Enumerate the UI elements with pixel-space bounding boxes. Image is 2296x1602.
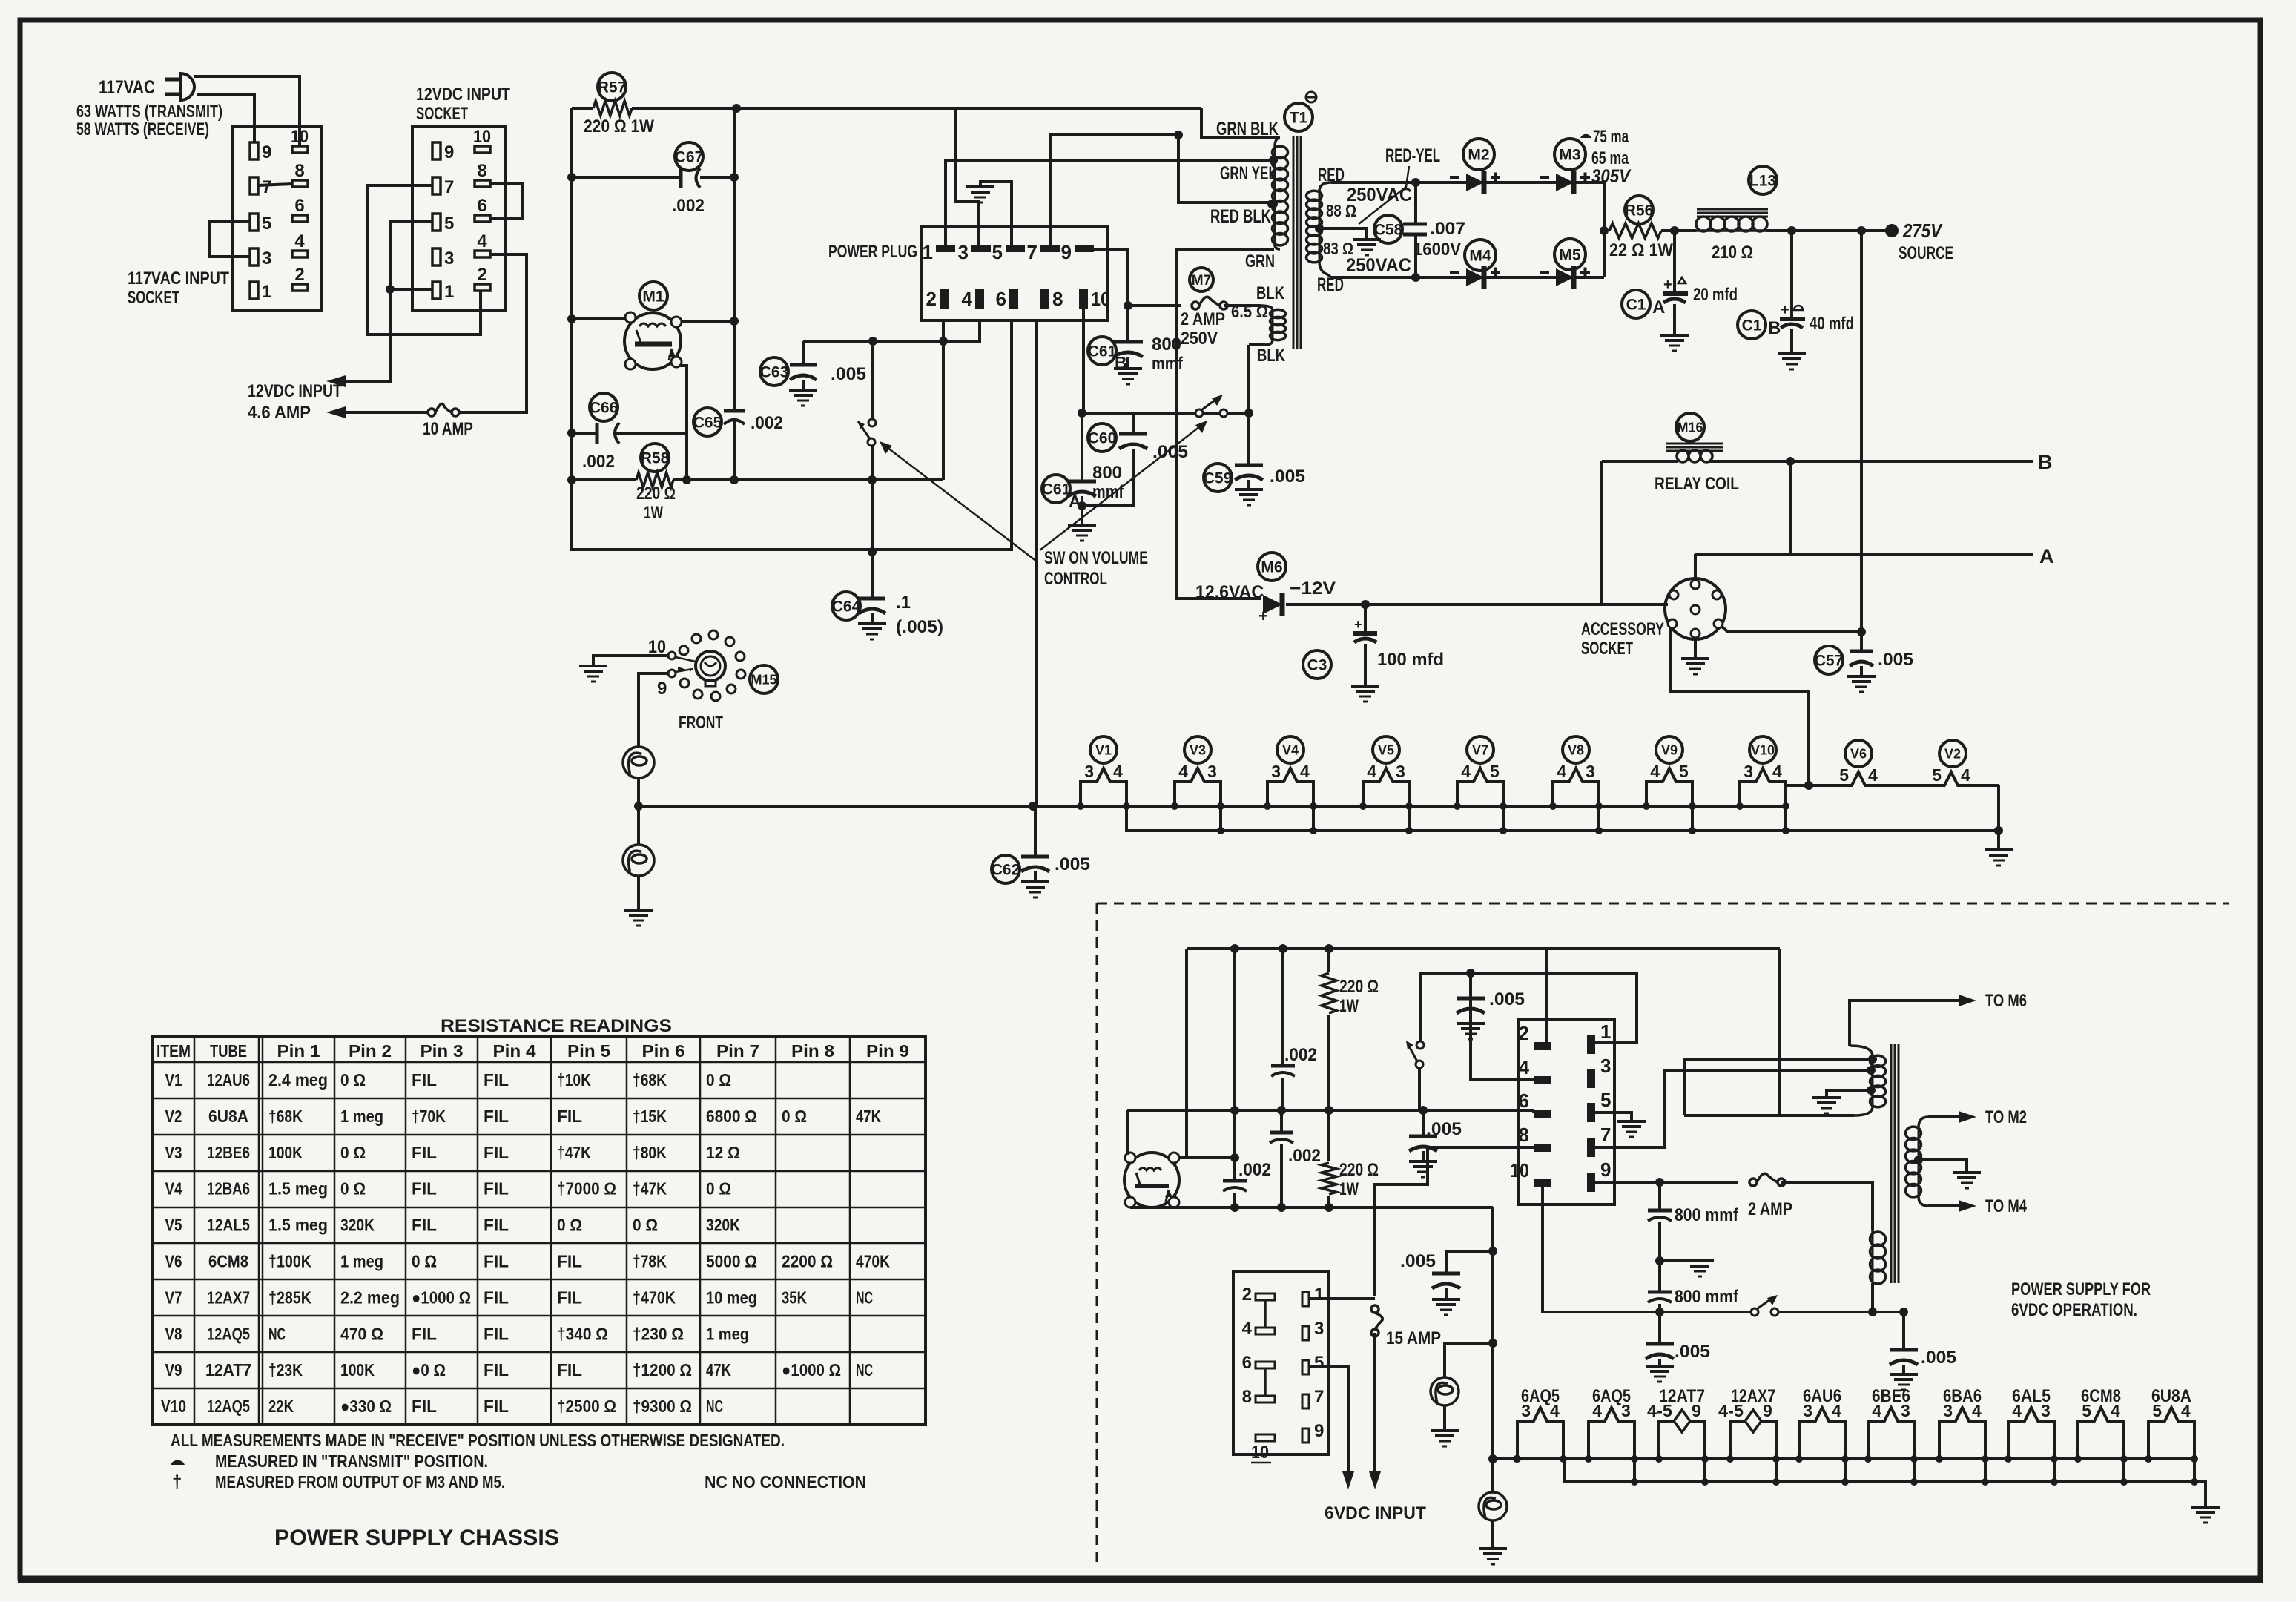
6V jumper 6CM8 (2122, 1459, 2125, 1482)
6VDC socket pin 4 (1256, 1328, 1275, 1334)
diode M3 (1554, 139, 1586, 170)
wire pin5 to ground (1595, 1112, 1632, 1121)
wire GRN tap down (1177, 249, 1274, 599)
svg-text:.002: .002 (672, 196, 705, 216)
svg-text:SOCKET: SOCKET (416, 104, 468, 124)
M15 socket (750, 665, 778, 693)
svg-text:3: 3 (1943, 1401, 1953, 1420)
svg-text:9: 9 (262, 142, 271, 162)
svg-text:RED-YEL: RED-YEL (1385, 145, 1440, 166)
6V pilot lamp 1 (1445, 1343, 1493, 1377)
svg-text:.005: .005 (1400, 1251, 1436, 1271)
6V plug pin 5 (1587, 1103, 1595, 1122)
tube V3 heater (1184, 736, 1211, 763)
svg-text:10: 10 (291, 127, 309, 147)
svg-text:12AT7: 12AT7 (205, 1360, 251, 1379)
svg-text:2 AMP: 2 AMP (1181, 309, 1225, 329)
svg-text:POWER PLUG: POWER PLUG (828, 242, 917, 262)
svg-text:Pin 5: Pin 5 (567, 1041, 610, 1061)
T1 primary winding (1275, 138, 1280, 147)
socket pin 4 (292, 251, 308, 257)
svg-text:GRN BLK: GRN BLK (1216, 119, 1279, 139)
jumper V4 (1312, 806, 1315, 831)
capacitor .002 lower middle (1280, 1110, 1283, 1131)
ground mid 800mmf (1655, 1256, 1664, 1265)
svg-text:FIL: FIL (484, 1252, 509, 1271)
wire V6/V2 heater line (1786, 785, 1837, 806)
svg-text:4: 4 (962, 288, 973, 310)
svg-text:R57: R57 (598, 79, 627, 96)
svg-text:V3: V3 (165, 1143, 182, 1162)
svg-text:3: 3 (1314, 1319, 1324, 1339)
socket pin 3 (250, 248, 258, 266)
svg-text:4: 4 (1178, 762, 1188, 781)
svg-text:3: 3 (1521, 1401, 1531, 1420)
svg-text:●1000 Ω: ●1000 Ω (782, 1360, 841, 1379)
svg-text:8: 8 (1519, 1124, 1529, 1146)
svg-text:3: 3 (1271, 762, 1281, 781)
6V left vertical from top wire to vibrator TR (1185, 949, 1188, 1158)
svg-text:35K: 35K (782, 1288, 807, 1307)
svg-text:FIL: FIL (484, 1324, 509, 1343)
V2 return to ground (1997, 785, 2000, 831)
svg-text:FIL: FIL (484, 1179, 509, 1199)
tube V1 heater (1090, 736, 1117, 763)
svg-text:.005: .005 (831, 364, 866, 384)
svg-text:5: 5 (1932, 765, 1942, 785)
6VDC socket pin2-4 joint (1264, 1300, 1267, 1327)
svg-text:220 Ω: 220 Ω (1339, 977, 1379, 997)
svg-text:C64: C64 (832, 599, 861, 616)
svg-text:ALL MEASUREMENTS MADE IN "RECE: ALL MEASUREMENTS MADE IN "RECEIVE" POSIT… (171, 1431, 785, 1450)
svg-text:4: 4 (2012, 1401, 2022, 1420)
svg-text:FIL: FIL (484, 1216, 509, 1235)
capacitor C66 (590, 393, 618, 421)
svg-text:+: + (1663, 277, 1672, 293)
svg-text:4.6 AMP: 4.6 AMP (248, 403, 311, 423)
svg-text:V4: V4 (1282, 742, 1299, 757)
svg-text:320K: 320K (340, 1216, 375, 1235)
svg-text:100K: 100K (340, 1360, 375, 1379)
6V transformer primary winding (1850, 1046, 1873, 1056)
svg-text:V8: V8 (1568, 742, 1584, 757)
svg-text:Pin 2: Pin 2 (349, 1041, 392, 1061)
6V plug pin 4 (1534, 1076, 1551, 1084)
12V socket pin 3 (432, 248, 441, 266)
svg-text:FIL: FIL (412, 1216, 437, 1235)
capacitor C63 (760, 357, 788, 386)
svg-text:SW ON VOLUME: SW ON VOLUME (1044, 548, 1148, 568)
svg-text:C3: C3 (1307, 657, 1327, 674)
svg-text:.005: .005 (1152, 442, 1188, 462)
svg-text:4: 4 (1113, 762, 1123, 781)
svg-text:1: 1 (923, 241, 933, 263)
wire B to A vertical (1789, 461, 1792, 554)
svg-text:Pin 6: Pin 6 (642, 1041, 685, 1061)
fuse 15 AMP (1371, 1305, 1379, 1313)
svg-text:2200 Ω: 2200 Ω (782, 1252, 833, 1271)
capacitor C1 A (1622, 290, 1650, 318)
6VDC socket pin 8 (1256, 1396, 1275, 1402)
12V socket pin 5 (432, 214, 441, 231)
diode M2 (1463, 139, 1494, 170)
wire top rail corner to GRN BLK (1201, 108, 1280, 138)
capacitor .005 (6V upper) (1466, 969, 1475, 978)
svg-text:250VAC: 250VAC (1347, 185, 1412, 205)
jumper V7 (1502, 806, 1505, 831)
plug pin 10 (1079, 289, 1088, 309)
node 275V SOURCE (1857, 226, 1866, 235)
6VDC socket pin 9 (1302, 1428, 1309, 1443)
svg-text:†9300 Ω: †9300 Ω (633, 1397, 692, 1416)
socket pin 5 (250, 214, 258, 231)
svg-text:5: 5 (2152, 1401, 2162, 1420)
socket right pin wire (1722, 627, 1861, 632)
wire M6 output (1286, 603, 1668, 606)
wire pin2/pin4 (943, 319, 980, 342)
svg-text:V5: V5 (1378, 742, 1394, 757)
6V plug pin 1 (1587, 1035, 1595, 1054)
svg-text:6U8A: 6U8A (208, 1107, 248, 1126)
6V plug pin 10 (1534, 1179, 1551, 1187)
jumper V10 (1784, 806, 1787, 831)
svg-text:V1: V1 (1095, 742, 1112, 757)
svg-text:1W: 1W (644, 503, 663, 523)
svg-text:65 ma: 65 ma (1591, 148, 1629, 168)
svg-text:V8: V8 (165, 1324, 182, 1343)
resistor R58 (641, 444, 669, 472)
plug pin 8 (1040, 289, 1049, 309)
6VDC socket pin 6 (1256, 1362, 1275, 1368)
svg-text:†47K: †47K (557, 1143, 591, 1162)
svg-text:8: 8 (1242, 1387, 1252, 1407)
svg-text:Pin 8: Pin 8 (791, 1041, 834, 1061)
wire pin9 (1094, 250, 1128, 306)
wire y=744 rung (572, 319, 1012, 550)
svg-text:FIL: FIL (412, 1070, 437, 1090)
6V vertical feed (1491, 1207, 1494, 1491)
svg-text:12.6VAC: 12.6VAC (1195, 582, 1264, 602)
svg-text:9: 9 (444, 142, 454, 162)
svg-text:3: 3 (1600, 1055, 1611, 1077)
svg-text:.002: .002 (1238, 1160, 1271, 1180)
svg-text:9: 9 (1600, 1158, 1611, 1181)
svg-text:†23K: †23K (268, 1360, 303, 1379)
tube V4 heater (1277, 736, 1304, 763)
svg-text:250VAC: 250VAC (1346, 255, 1411, 276)
capacitor .005 right (1902, 1312, 1905, 1350)
12V socket pin 8 (475, 180, 490, 187)
wire pin1 to GRN YEL tap (946, 160, 1273, 245)
capacitor C64 (832, 592, 860, 620)
plug pin 6 (1009, 289, 1018, 309)
svg-text:C62: C62 (992, 862, 1020, 879)
svg-text:5: 5 (1314, 1353, 1324, 1373)
TO M6 arrow (1850, 1001, 1962, 1046)
svg-text:FIL: FIL (484, 1397, 509, 1416)
wire pin5 to ground (980, 182, 1012, 245)
svg-text:4: 4 (1868, 765, 1878, 785)
capacitor C61 B (1088, 337, 1116, 365)
6V switch (1418, 1068, 1421, 1110)
svg-text:CONTROL: CONTROL (1044, 569, 1107, 589)
svg-text:†47K: †47K (633, 1179, 667, 1199)
plug pin 1 (936, 245, 955, 252)
117VAC input socket (233, 126, 322, 311)
svg-text:8: 8 (1052, 288, 1063, 310)
M15 pin 9 (668, 670, 676, 677)
pointer arrow to left switch (884, 445, 1037, 561)
capacitor .005 below mid wire (1422, 1110, 1425, 1136)
wire plug to socket pin 10 (194, 76, 300, 146)
svg-text:800 mmf: 800 mmf (1675, 1205, 1739, 1225)
svg-text:4: 4 (1367, 762, 1376, 781)
svg-text:TO M6: TO M6 (1985, 991, 2027, 1011)
12V socket pin 6 (475, 215, 490, 222)
svg-text:RED BLK: RED BLK (1210, 206, 1271, 227)
wire pin7 to transformer pair (1595, 1070, 1873, 1147)
capacitor .005 (6V left) (1446, 1251, 1493, 1273)
svg-text:SOCKET: SOCKET (1581, 639, 1633, 659)
svg-text:22K: 22K (268, 1397, 294, 1416)
svg-text:1 meg: 1 meg (340, 1252, 383, 1271)
6VDC socket pin 7 (1302, 1394, 1309, 1408)
ground above plug (966, 185, 994, 188)
svg-text:3: 3 (444, 248, 454, 268)
wire pin7-pin8 jumper (258, 184, 292, 185)
svg-text:0 Ω: 0 Ω (633, 1216, 658, 1235)
svg-text:†285K: †285K (268, 1288, 311, 1307)
6V transformer heater winding (1871, 1230, 1874, 1233)
label 75ma 65ma 305V (1580, 134, 1591, 138)
svg-text:V1: V1 (165, 1070, 182, 1090)
svg-text:9: 9 (657, 679, 667, 699)
tube V6 heater (1845, 740, 1872, 767)
tube V5 heater (1373, 736, 1399, 763)
svg-text:mmf: mmf (1092, 482, 1124, 502)
svg-text:†2500 Ω: †2500 Ω (557, 1397, 616, 1416)
svg-text:†230 Ω: †230 Ω (633, 1324, 684, 1343)
inductor L13 (1749, 166, 1777, 194)
svg-text:NC: NC (856, 1288, 873, 1307)
svg-text:75 ma: 75 ma (1593, 127, 1629, 147)
svg-text:C1: C1 (1742, 317, 1762, 334)
wire 6VDC pin1 to 15 AMP fuse (1309, 1297, 1375, 1300)
svg-text:4-5: 4-5 (1647, 1401, 1672, 1420)
diode M5 (1554, 239, 1586, 270)
12V socket pin 1 (432, 282, 441, 299)
resistor R56 (1625, 196, 1653, 224)
svg-text:0 Ω: 0 Ω (557, 1216, 582, 1235)
socket ground (1694, 638, 1697, 659)
svg-text:.005: .005 (1055, 854, 1090, 874)
svg-text:MEASURED IN "TRANSMIT" POSITIO: MEASURED IN "TRANSMIT" POSITION. (215, 1451, 488, 1471)
12V socket pin 10 (475, 146, 490, 153)
svg-text:C63: C63 (760, 364, 789, 381)
svg-text:V10: V10 (161, 1397, 186, 1416)
svg-text:V2: V2 (1944, 746, 1961, 761)
svg-text:3: 3 (1901, 1401, 1910, 1420)
6VDC socket pin 3 (1302, 1326, 1309, 1340)
pilot lamp 1 (623, 747, 654, 778)
jumper V3 (1219, 806, 1222, 831)
svg-text:275V: 275V (1902, 220, 1943, 242)
6V plug pin 2 (1534, 1042, 1551, 1050)
svg-text:3: 3 (1207, 762, 1217, 781)
svg-text:4: 4 (1519, 1056, 1530, 1078)
svg-text:.005: .005 (1878, 650, 1913, 670)
svg-text:†15K: †15K (633, 1107, 667, 1126)
svg-text:12BA6: 12BA6 (207, 1179, 250, 1199)
svg-text:15 AMP: 15 AMP (1386, 1328, 1441, 1348)
svg-text:3: 3 (1803, 1401, 1812, 1420)
svg-text:†80K: †80K (633, 1143, 667, 1162)
svg-text:GRN: GRN (1245, 251, 1275, 271)
svg-text:320K: 320K (706, 1216, 740, 1235)
svg-text:†70K: †70K (412, 1107, 446, 1126)
svg-text:12AL5: 12AL5 (207, 1216, 250, 1235)
switch on x=1176 with C64 below (871, 341, 874, 418)
svg-text:1W: 1W (1339, 996, 1359, 1016)
svg-text:100 mfd: 100 mfd (1377, 650, 1444, 670)
svg-text:C60: C60 (1088, 430, 1117, 447)
wire secondary top to diodes (1331, 181, 1416, 184)
svg-text:9: 9 (1763, 1401, 1772, 1420)
relay coil M16 (1676, 413, 1704, 441)
svg-text:0 Ω: 0 Ω (340, 1179, 366, 1199)
capacitor C59 (1204, 464, 1232, 492)
svg-text:0 Ω: 0 Ω (412, 1252, 437, 1271)
svg-text:0 Ω: 0 Ω (706, 1070, 731, 1090)
svg-text:C59: C59 (1204, 470, 1233, 487)
heater bus (639, 805, 1786, 808)
12VDC input socket (412, 126, 506, 311)
svg-text:3: 3 (958, 241, 969, 263)
svg-text:A: A (2039, 545, 2054, 567)
6V top wire (1187, 947, 1780, 950)
svg-text:8: 8 (294, 161, 304, 181)
svg-text:(.005): (.005) (896, 617, 943, 637)
svg-text:58 WATTS (RECEIVE): 58 WATTS (RECEIVE) (76, 119, 209, 139)
socket pin 1 (250, 282, 258, 299)
tube V9 heater (1656, 736, 1683, 763)
svg-text:6: 6 (477, 196, 486, 216)
wire plug to socket pin 9 (197, 95, 254, 142)
svg-text:†100K: †100K (268, 1252, 311, 1271)
svg-text:4: 4 (2111, 1401, 2120, 1420)
svg-text:Pin 7: Pin 7 (716, 1041, 759, 1061)
svg-text:2: 2 (926, 288, 937, 310)
6V vibrator (1124, 1153, 1179, 1207)
svg-text:†7000 Ω: †7000 Ω (557, 1179, 616, 1199)
capacitor 800mmf lower (1648, 1290, 1672, 1294)
svg-text:1.5 meg: 1.5 meg (268, 1216, 328, 1235)
svg-text:.005: .005 (1489, 989, 1525, 1009)
vertical from 275V to C57 (1860, 231, 1863, 651)
diode M6 (1258, 553, 1286, 581)
wire pin7 loop (367, 185, 481, 334)
svg-text:FIL: FIL (412, 1397, 437, 1416)
svg-text:220 Ω: 220 Ω (1339, 1160, 1379, 1180)
svg-text:T1: T1 (1290, 110, 1308, 127)
svg-text:3: 3 (1396, 762, 1405, 781)
6V jumper 12AT7 (1703, 1459, 1706, 1482)
svg-text:7: 7 (444, 177, 454, 197)
6V plug pin 6 (1534, 1110, 1551, 1118)
svg-text:.005: .005 (1921, 1348, 1956, 1368)
svg-text:NC NO CONNECTION: NC NO CONNECTION (705, 1472, 866, 1491)
svg-text:63 WATTS (TRANSMIT): 63 WATTS (TRANSMIT) (76, 102, 222, 122)
6V jumper 6BA6 (1984, 1459, 1987, 1482)
svg-text:4: 4 (1300, 762, 1310, 781)
resistor 220 ohm 1W upper (1327, 949, 1330, 972)
capacitor .005 below switch left (1646, 1342, 1674, 1346)
vibrator M1 (639, 282, 667, 310)
wire pin3 to top rail (956, 108, 979, 245)
svg-text:FRONT: FRONT (679, 713, 723, 733)
6V heater jumper bus (1564, 1459, 2206, 1507)
svg-text:0 Ω: 0 Ω (340, 1143, 366, 1162)
svg-text:7: 7 (262, 177, 271, 197)
svg-text:NC: NC (706, 1397, 723, 1416)
svg-text:RELAY COIL: RELAY COIL (1655, 474, 1739, 494)
svg-text:800 mmf: 800 mmf (1675, 1287, 1739, 1307)
svg-text:470K: 470K (856, 1252, 890, 1271)
svg-text:220 Ω: 220 Ω (636, 484, 676, 504)
wire BLK down to C59 (1247, 345, 1250, 465)
wire pin8 down to heater bus (1035, 319, 1038, 806)
svg-text:.002: .002 (1284, 1045, 1317, 1065)
svg-text:M5: M5 (1559, 247, 1580, 264)
svg-text:7: 7 (1314, 1387, 1324, 1407)
6V plug pin 9 (1587, 1173, 1595, 1192)
svg-text:L13: L13 (1749, 173, 1776, 190)
svg-text:5: 5 (444, 214, 454, 234)
6V jumper 6BE6 (1913, 1459, 1916, 1482)
svg-text:V7: V7 (165, 1288, 182, 1307)
svg-text:V3: V3 (1190, 742, 1206, 757)
svg-text:M4: M4 (1469, 248, 1491, 265)
arrow 12VDC INPUT (326, 375, 346, 387)
svg-text:C61: C61 (1042, 481, 1071, 498)
svg-text:C65: C65 (693, 415, 722, 432)
svg-text:FIL: FIL (484, 1143, 509, 1162)
svg-text:4: 4 (477, 231, 487, 251)
svg-text:†10K: †10K (557, 1070, 591, 1090)
svg-text:TO M4: TO M4 (1985, 1196, 2027, 1216)
svg-text:4: 4 (1872, 1401, 1881, 1420)
svg-text:M7: M7 (1192, 273, 1211, 289)
socket pin 9 (250, 142, 258, 159)
switch on volume control (right) (1195, 409, 1203, 417)
resistor R57 (598, 73, 626, 101)
jumper V5 (1408, 806, 1411, 831)
wire pin4 through 10 AMP fuse (455, 254, 527, 412)
6V switch wire (1655, 1308, 1664, 1316)
svg-text:12VDC INPUT: 12VDC INPUT (248, 381, 342, 401)
svg-text:2.4 meg: 2.4 meg (268, 1070, 328, 1090)
svg-text:5000 Ω: 5000 Ω (706, 1252, 757, 1271)
svg-text:4: 4 (1242, 1319, 1253, 1339)
svg-text:4: 4 (1592, 1401, 1602, 1420)
12V socket pin 7 (432, 177, 441, 194)
node B (1786, 457, 1795, 466)
wire C63 rung (803, 340, 943, 343)
svg-text:10: 10 (473, 127, 491, 147)
plug pin 7 (1040, 245, 1060, 252)
pilot lamp 2 (623, 845, 654, 876)
svg-text:†340 Ω: †340 Ω (557, 1324, 608, 1343)
